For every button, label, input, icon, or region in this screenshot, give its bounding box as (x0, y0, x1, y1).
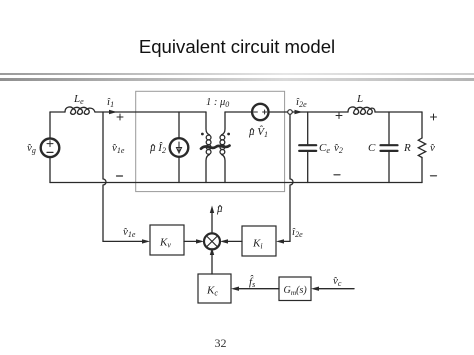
block Gm (279, 277, 311, 301)
arrow into Ki (276, 239, 284, 243)
svg-text:f̂s: f̂s (249, 275, 255, 289)
resistor R (421, 112, 423, 138)
arrow into Kv (142, 239, 150, 243)
wire Kv to multiplier (184, 240, 199, 242)
sense wire v1e down with crossover hop (103, 112, 146, 241)
minus of v out (431, 175, 437, 177)
svg-text:v̂c: v̂c (333, 275, 342, 288)
svg-text:v̂: v̂ (430, 142, 435, 154)
svg-text:μ V̂1: μ V̂1 (248, 125, 268, 139)
polarity dot secondary (227, 133, 230, 136)
inductor Le (65, 107, 95, 114)
wire top rail left (50, 111, 65, 113)
svg-text:Kv: Kv (159, 237, 171, 250)
svg-text:Gm(s): Gm(s) (284, 285, 308, 297)
arrow into multiplier from Ki (220, 239, 228, 243)
block Kv (150, 225, 184, 255)
transformer primary winding (206, 112, 210, 135)
svg-text:î2e: î2e (296, 96, 307, 109)
wire secondary to source (225, 111, 252, 113)
svg-text:v̂1e: v̂1e (112, 142, 125, 155)
svg-text:î2e: î2e (292, 226, 303, 239)
wire L to corner (375, 111, 422, 113)
plus of v out (431, 114, 437, 120)
svg-text:Ki: Ki (252, 238, 263, 251)
capacitor Ce (307, 112, 309, 144)
divider line lower (0, 78, 474, 81)
svg-text:Kc: Kc (206, 285, 218, 298)
plus of v1e port (117, 114, 123, 120)
current arrow i2e (295, 110, 303, 114)
minus inside vg (47, 151, 53, 153)
voltage source mu V1 (252, 104, 268, 120)
svg-text:μ Î2: μ Î2 (149, 142, 166, 155)
svg-text:v̂g: v̂g (27, 142, 36, 155)
arrow into Kc (231, 287, 239, 291)
input wire vc (316, 288, 354, 290)
wire Ki to multiplier (225, 240, 242, 242)
bottom rail (50, 182, 422, 184)
block Kc (198, 274, 231, 303)
minus of v2 (334, 174, 340, 176)
arrow into Gm (311, 287, 319, 291)
block Ki (242, 226, 276, 256)
wire top rail to transformer (95, 111, 206, 113)
inductor L (348, 107, 375, 114)
arrow into multiplier from Kv (196, 239, 204, 243)
svg-text:1 : μ0: 1 : μ0 (206, 97, 229, 109)
svg-text:C: C (368, 142, 376, 154)
svg-text:Le: Le (73, 93, 84, 106)
arrow into multiplier from Kc (210, 248, 214, 256)
polarity dot primary (201, 133, 204, 136)
multiplier (204, 233, 220, 249)
wire Kc to multiplier (211, 254, 213, 274)
wire source to node (269, 111, 288, 113)
current arrow i1 (109, 110, 117, 114)
wire Gm to Kc (236, 288, 279, 290)
plus inside (263, 110, 267, 114)
minus of v1e port (117, 175, 123, 177)
transformer secondary winding (222, 112, 226, 135)
sense wire i2e down with crossover hop (281, 114, 293, 241)
svg-text:v̂1e: v̂1e (123, 226, 136, 239)
capacitor C (388, 112, 390, 144)
svg-text:R: R (403, 142, 411, 154)
plus inside vg (47, 141, 53, 147)
svg-text:v̂2: v̂2 (334, 142, 343, 155)
current source mu I2 (178, 112, 180, 138)
transformer core squiggle (201, 146, 230, 149)
mu output arrow (211, 212, 213, 233)
svg-text:L: L (356, 93, 363, 105)
divider line upper (0, 73, 474, 75)
wire node to output (292, 111, 348, 113)
voltage source vg (49, 112, 51, 139)
plus of v2 (336, 113, 342, 119)
slide title (0, 36, 474, 58)
svg-text:î1: î1 (107, 96, 114, 109)
node circle (288, 110, 293, 115)
dashed box (ideal converter model boundary) (136, 91, 285, 191)
svg-text:Ce: Ce (319, 142, 330, 155)
minus inside (254, 111, 258, 113)
svg-text:μ: μ (216, 203, 223, 215)
page number (0, 336, 441, 351)
